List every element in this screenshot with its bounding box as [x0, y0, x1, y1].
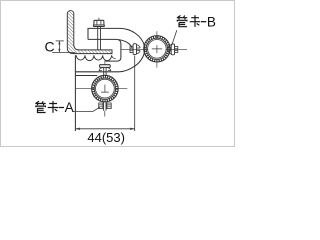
clamp B outer circle	[144, 36, 170, 62]
clamp B center cross	[152, 45, 162, 53]
clamp A outer circle	[92, 75, 119, 102]
clamp A center cross	[101, 85, 109, 93]
angle steel L-profile (hatched section)	[67, 11, 112, 54]
dimension C: arrow line	[58, 41, 60, 52]
bolt right of clamp B	[168, 44, 178, 55]
set-screw M1 on top plate	[93, 18, 104, 50]
bolt left of clamp B	[130, 44, 140, 55]
svg-text:C: C	[45, 38, 55, 54]
clamp A band inner circles	[94, 78, 115, 99]
dimension 44(53): right extension line	[134, 56, 136, 132]
bolt at top of clamp A (T-bolt with wing washer)	[99, 65, 111, 76]
dimension C: bottom extension line	[52, 51, 75, 53]
svg-text:A: A	[65, 100, 75, 115]
clamp B hatched band	[145, 37, 169, 61]
clamp B horizontal centerline	[121, 48, 187, 50]
leader line to label B	[172, 30, 177, 45]
dimension C: top extension line	[56, 40, 64, 42]
bolt at bottom of clamp A (nut + washers)	[99, 102, 112, 117]
svg-text:B: B	[207, 14, 216, 29]
label 管卡-A	[35, 101, 58, 113]
clamp A horizontal centerline	[75, 87, 127, 89]
clamp body top plate outline with hook arm	[75, 28, 144, 71]
svg-text:44(53): 44(53)	[87, 130, 125, 145]
leader line to label A	[74, 107, 101, 111]
serrated jaw scallops	[76, 55, 116, 60]
clamp body inner line (plate bottom + rounded lug)	[88, 39, 121, 61]
clamp A top centerline	[104, 60, 106, 64]
dimension 44(53): dimension line with arrows	[75, 128, 134, 130]
clamp B vertical centerline	[156, 31, 158, 67]
jaw lower line	[75, 75, 97, 77]
left jaw edge + dimension extension line	[74, 55, 76, 131]
label 管卡-B	[177, 15, 201, 27]
inner curve to clamp B bolt	[118, 40, 132, 48]
clamp B band inner circles	[146, 38, 167, 59]
clamp A hatched band	[93, 77, 117, 101]
